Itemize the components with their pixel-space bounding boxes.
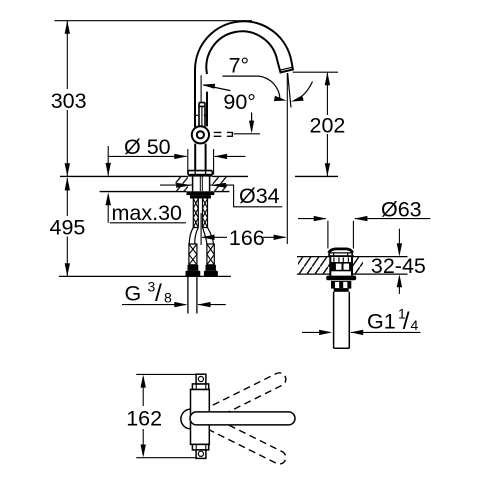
svg-text:495: 495 xyxy=(50,215,86,239)
svg-text:Ø34: Ø34 xyxy=(239,184,280,208)
svg-text:166: 166 xyxy=(229,226,265,250)
svg-text:G: G xyxy=(125,282,142,306)
svg-text:4: 4 xyxy=(411,317,419,333)
svg-text:202: 202 xyxy=(310,113,346,137)
svg-text:/: / xyxy=(155,280,162,307)
svg-text:303: 303 xyxy=(51,89,87,113)
svg-text:max.30: max.30 xyxy=(112,201,183,225)
svg-text:8: 8 xyxy=(164,289,172,305)
svg-text:G1: G1 xyxy=(367,309,396,333)
svg-text:Ø63: Ø63 xyxy=(381,197,422,221)
svg-text:/: / xyxy=(403,308,410,335)
svg-text:7°: 7° xyxy=(229,53,250,77)
svg-text:Ø 50: Ø 50 xyxy=(124,135,171,159)
svg-text:162: 162 xyxy=(126,407,162,431)
svg-text:32-45: 32-45 xyxy=(371,254,426,278)
svg-text:90°: 90° xyxy=(223,90,256,114)
